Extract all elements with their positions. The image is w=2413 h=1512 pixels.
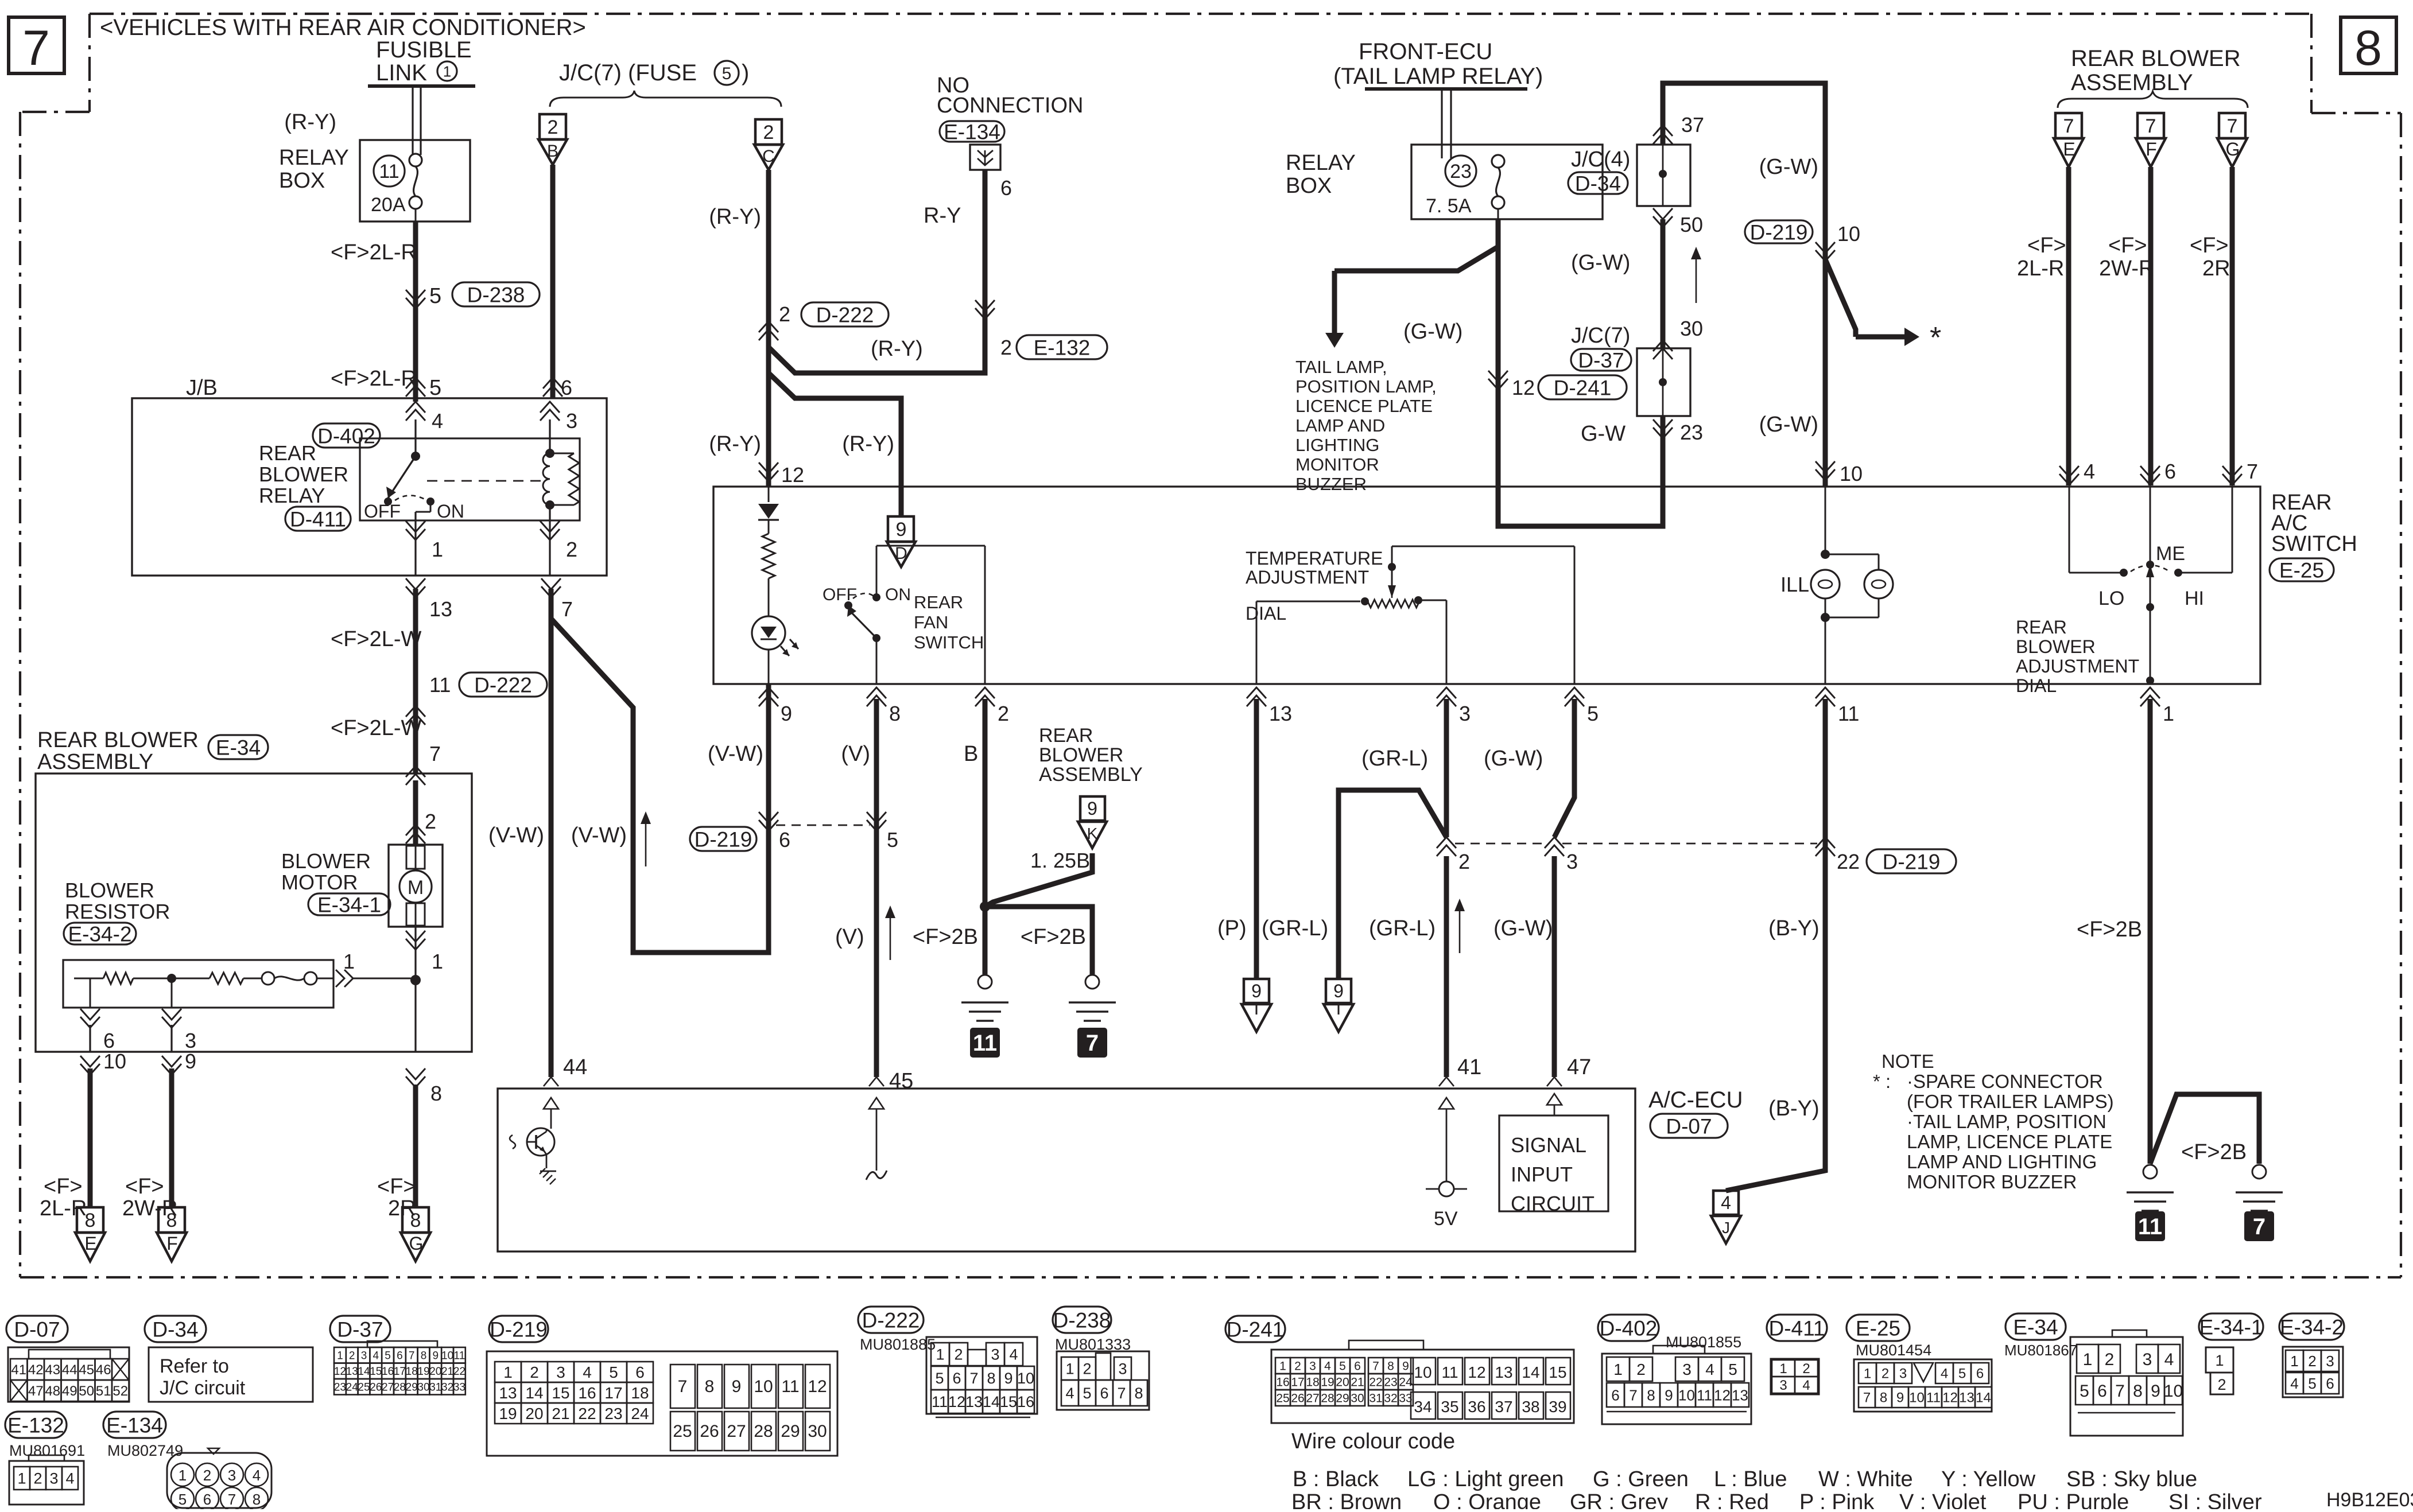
svg-text:SB : Sky blue: SB : Sky blue [2066,1467,2197,1491]
svg-text:10: 10 [2164,1382,2183,1401]
svg-text:L : Blue: L : Blue [1714,1467,1787,1491]
svg-text:E-34: E-34 [2013,1315,2058,1339]
svg-text:14: 14 [1522,1363,1539,1381]
svg-text:(G-W): (G-W) [1493,916,1553,940]
svg-text:<F>: <F> [377,1175,416,1199]
svg-text:50: 50 [79,1383,94,1399]
svg-text:7. 5A: 7. 5A [1426,195,1472,217]
svg-text:D-238: D-238 [1053,1308,1111,1332]
svg-text:9: 9 [433,1350,439,1362]
svg-text:K: K [1087,825,1098,842]
svg-text:2: 2 [1458,850,1470,873]
svg-text:1: 1 [2163,702,2174,725]
svg-text:ADJUSTMENT: ADJUSTMENT [1246,567,1369,588]
svg-text:13: 13 [346,1366,358,1378]
svg-text:10: 10 [1909,1390,1925,1406]
svg-text:1: 1 [1613,1361,1623,1378]
svg-text:7: 7 [561,597,573,621]
svg-text:LO: LO [2098,588,2124,609]
svg-text:43: 43 [45,1362,60,1378]
svg-text:47: 47 [28,1383,44,1399]
svg-text:15: 15 [1549,1363,1566,1381]
svg-text:FUSIBLE: FUSIBLE [376,37,472,63]
svg-text:7: 7 [2115,1382,2125,1401]
svg-text:23: 23 [1384,1376,1397,1389]
svg-text:4: 4 [1009,1346,1018,1363]
svg-text:2: 2 [1636,1361,1646,1378]
svg-text:22: 22 [1837,850,1860,873]
svg-text:(V): (V) [835,925,864,949]
svg-text:3: 3 [566,409,577,433]
svg-text:E: E [84,1233,96,1254]
svg-text:6: 6 [2097,1382,2107,1401]
svg-text:11: 11 [1926,1390,1941,1406]
svg-text:1: 1 [1279,1360,1286,1373]
svg-text:R-Y: R-Y [924,204,961,228]
svg-text:15: 15 [370,1366,382,1378]
svg-text:13: 13 [965,1393,983,1410]
svg-text:1: 1 [1864,1366,1871,1382]
svg-text:E-34-2: E-34-2 [68,922,131,946]
svg-text:9: 9 [1087,798,1097,819]
svg-text:D-238: D-238 [467,283,525,306]
svg-text:5: 5 [887,828,898,852]
svg-text:2: 2 [1802,1361,1810,1377]
svg-text:J: J [1722,1219,1730,1237]
svg-text:41: 41 [1457,1055,1481,1079]
svg-text:E-34-1: E-34-1 [317,893,381,916]
svg-text:2: 2 [349,1350,355,1362]
svg-text:2: 2 [425,810,436,833]
svg-text:12: 12 [1942,1390,1958,1406]
svg-text:OFF: OFF [364,501,401,522]
svg-text:24: 24 [631,1405,649,1422]
svg-text:(R-Y): (R-Y) [709,205,761,229]
svg-text:20: 20 [525,1405,543,1422]
svg-text:DIAL: DIAL [2016,675,2057,696]
svg-text:BLOWER: BLOWER [259,462,348,486]
svg-text:2: 2 [998,702,1009,725]
svg-text:MONITOR: MONITOR [1295,454,1379,475]
svg-text:3: 3 [1779,1378,1787,1393]
svg-text:D-219: D-219 [1883,850,1941,873]
svg-text:2: 2 [1881,1366,1889,1382]
svg-text:<F>: <F> [44,1175,83,1199]
svg-text:<F>2L-W: <F>2L-W [331,716,422,740]
svg-text:9: 9 [1665,1386,1673,1404]
svg-text:4: 4 [253,1467,261,1484]
svg-text:(GR-L): (GR-L) [1361,747,1428,771]
svg-text:30: 30 [808,1422,827,1441]
svg-text:1: 1 [2083,1350,2093,1369]
svg-text:8: 8 [1134,1385,1143,1402]
svg-text:25: 25 [1276,1392,1289,1405]
svg-text:A/C-ECU: A/C-ECU [1648,1087,1743,1113]
svg-text:39: 39 [1549,1398,1566,1416]
svg-text:D-34: D-34 [152,1317,198,1341]
svg-text:12: 12 [1512,376,1535,399]
svg-text:9: 9 [2151,1382,2160,1401]
svg-text:MONITOR BUZZER: MONITOR BUZZER [1907,1171,2077,1192]
svg-text:2: 2 [2105,1350,2115,1369]
svg-text:J/C(4): J/C(4) [1571,147,1630,172]
svg-text:LIGHTING: LIGHTING [1295,435,1379,455]
svg-text:J/C(7): J/C(7) [1571,324,1630,348]
svg-text:7: 7 [1086,1031,1099,1056]
svg-text:SIGNAL: SIGNAL [1511,1133,1586,1157]
svg-text:E-25: E-25 [1856,1316,1900,1340]
svg-text:13: 13 [499,1384,517,1402]
svg-text:4: 4 [1324,1360,1331,1373]
svg-text:D-07: D-07 [1666,1114,1712,1138]
svg-text:E-134: E-134 [106,1413,163,1437]
svg-text:31: 31 [429,1382,441,1394]
svg-text:7: 7 [2247,460,2258,483]
svg-text:7: 7 [429,742,441,765]
svg-text:4: 4 [1065,1385,1074,1402]
svg-text:41: 41 [11,1362,26,1378]
svg-text:16: 16 [1276,1376,1289,1389]
svg-text:R : Red: R : Red [1695,1490,1769,1509]
svg-text:5: 5 [609,1363,618,1381]
svg-text:26: 26 [1291,1392,1304,1405]
svg-text:19: 19 [1321,1376,1334,1389]
svg-text:REAR BLOWER: REAR BLOWER [2071,46,2241,71]
svg-text:22: 22 [1369,1376,1382,1389]
svg-text:E-34-1: E-34-1 [2199,1315,2263,1339]
svg-text:11: 11 [1838,702,1859,725]
svg-text:28: 28 [394,1382,406,1394]
svg-text:RELAY: RELAY [259,484,325,507]
svg-text:3: 3 [361,1350,367,1362]
svg-text:7: 7 [1863,1390,1871,1406]
svg-text:G-W: G-W [1581,422,1626,446]
svg-text:5: 5 [179,1491,187,1508]
svg-text:MU801867: MU801867 [2004,1342,2077,1359]
svg-text:1: 1 [432,950,443,973]
svg-text:8: 8 [253,1491,261,1508]
svg-text:CIRCUIT: CIRCUIT [1511,1192,1595,1215]
svg-text:12: 12 [781,463,804,487]
svg-text:17: 17 [1291,1376,1304,1389]
svg-text:21: 21 [441,1366,453,1378]
svg-text:14: 14 [1976,1390,1991,1406]
svg-text:(V-W): (V-W) [488,823,544,848]
svg-text:<F>2B: <F>2B [2077,918,2142,942]
svg-text:13: 13 [429,597,452,621]
svg-text:3: 3 [991,1346,999,1363]
svg-text:4: 4 [2084,460,2095,483]
svg-text:6: 6 [203,1491,211,1508]
svg-text:MU801454: MU801454 [1856,1342,1931,1359]
svg-text:26: 26 [370,1382,382,1394]
svg-text:V : Violet: V : Violet [1899,1490,1987,1509]
svg-text:8: 8 [2354,21,2382,76]
svg-text:5: 5 [1339,1360,1346,1373]
svg-text:9: 9 [1333,981,1344,1001]
svg-text:2: 2 [33,1470,42,1487]
svg-text:11: 11 [454,1350,465,1362]
svg-text:6: 6 [779,828,790,852]
svg-text:11: 11 [379,161,399,182]
svg-text:2: 2 [203,1467,211,1484]
svg-text:49: 49 [62,1383,77,1399]
svg-text:4: 4 [1802,1378,1810,1393]
svg-text:D-37: D-37 [1578,348,1624,372]
svg-text:BLOWER: BLOWER [281,849,371,873]
svg-text:46: 46 [96,1362,111,1378]
svg-text:D-37: D-37 [337,1317,383,1341]
svg-text:(TAIL LAMP RELAY): (TAIL LAMP RELAY) [1333,64,1543,89]
svg-text:J/C circuit: J/C circuit [160,1377,246,1399]
svg-text:CONNECTION: CONNECTION [937,94,1083,118]
svg-text:·SPARE CONNECTOR: ·SPARE CONNECTOR [1907,1071,2103,1092]
svg-text:7: 7 [409,1350,415,1362]
svg-text:REAR: REAR [259,441,316,465]
svg-text:REAR: REAR [914,592,963,612]
svg-text:11: 11 [429,673,451,697]
svg-text:29: 29 [406,1382,418,1394]
svg-text:4: 4 [373,1350,379,1362]
svg-text:M: M [408,877,424,899]
svg-text:<F>: <F> [125,1175,164,1199]
svg-text:5: 5 [429,284,441,308]
svg-text:P : Pink: P : Pink [1799,1490,1875,1509]
svg-text:G: G [2226,139,2240,160]
svg-text:7: 7 [228,1491,236,1508]
svg-text:GR : Grey: GR : Grey [1570,1490,1668,1509]
svg-text:42: 42 [28,1362,44,1378]
svg-text:13: 13 [1495,1363,1512,1381]
svg-text:3: 3 [556,1363,565,1381]
svg-text:9: 9 [1896,1390,1904,1406]
svg-text:LG : Light green: LG : Light green [1407,1467,1564,1491]
svg-text:B : Black: B : Black [1293,1467,1379,1491]
svg-text:O : Orange: O : Orange [1433,1490,1541,1509]
svg-text:2: 2 [530,1363,539,1381]
svg-text:BLOWER: BLOWER [65,879,154,902]
svg-text:TEMPERATURE: TEMPERATURE [1246,548,1383,569]
svg-text:9: 9 [1402,1360,1409,1373]
svg-text:22: 22 [578,1405,596,1422]
svg-text:25: 25 [358,1382,370,1394]
svg-text:J/B: J/B [186,376,218,400]
svg-text:52: 52 [112,1383,128,1399]
svg-text:B: B [547,142,558,161]
svg-text:E-132: E-132 [7,1413,64,1437]
svg-text:7: 7 [1629,1386,1637,1404]
svg-text:ADJUSTMENT: ADJUSTMENT [2016,656,2139,677]
svg-text:31: 31 [1369,1392,1382,1405]
svg-text:LAMP AND: LAMP AND [1295,415,1385,436]
svg-text:45: 45 [79,1362,94,1378]
svg-text:13: 13 [1269,702,1292,725]
svg-text:D-241: D-241 [1227,1317,1285,1341]
svg-text:3: 3 [1309,1360,1316,1373]
svg-text:(G-W): (G-W) [1759,413,1818,437]
svg-text:8: 8 [1880,1390,1887,1406]
svg-text:RESISTOR: RESISTOR [65,900,170,923]
svg-text:(GR-L): (GR-L) [1262,916,1328,940]
svg-text:1: 1 [17,1470,26,1487]
svg-text:10: 10 [103,1050,126,1073]
svg-text:27: 27 [727,1422,746,1441]
svg-text:SWITCH: SWITCH [2271,532,2357,556]
svg-text:Refer to: Refer to [160,1355,229,1377]
svg-text:C: C [762,147,775,166]
svg-text:FRONT-ECU: FRONT-ECU [1359,39,1492,64]
svg-text:(R-Y): (R-Y) [871,337,923,361]
svg-text:BUZZER: BUZZER [1295,474,1367,494]
svg-text:<F>2L-R: <F>2L-R [331,240,417,265]
svg-text:9: 9 [781,702,792,725]
svg-text:F: F [2146,139,2157,160]
svg-text:ASSEMBLY: ASSEMBLY [1039,764,1143,786]
svg-text:D: D [895,544,907,563]
svg-text:D-07: D-07 [14,1317,60,1341]
svg-text:BLOWER: BLOWER [2016,636,2096,657]
svg-text:29: 29 [1336,1392,1349,1405]
svg-text:4: 4 [65,1470,74,1487]
svg-text:36: 36 [1468,1398,1485,1416]
svg-text:6: 6 [1100,1385,1108,1402]
svg-text:1: 1 [443,63,451,80]
svg-text:5: 5 [2080,1382,2089,1401]
svg-text:44: 44 [563,1055,587,1079]
svg-text:19: 19 [499,1405,517,1422]
svg-text:11: 11 [781,1377,799,1396]
svg-text:2: 2 [954,1346,963,1363]
svg-text:7: 7 [22,21,50,76]
svg-text:B: B [964,742,978,766]
svg-text:LINK: LINK [376,60,427,85]
svg-text:9: 9 [1004,1370,1012,1387]
svg-text:2L-R: 2L-R [2017,256,2064,281]
svg-text:LICENCE PLATE: LICENCE PLATE [1295,396,1433,416]
svg-text:D-222: D-222 [816,303,874,327]
svg-text:23: 23 [1680,421,1703,444]
svg-text:6: 6 [2164,460,2176,483]
svg-text:11: 11 [2138,1214,2162,1239]
svg-text:3: 3 [1118,1361,1127,1378]
svg-text:15: 15 [1000,1393,1017,1410]
svg-text:3: 3 [1899,1366,1907,1382]
svg-text:7: 7 [2227,115,2238,137]
svg-text:·TAIL LAMP, POSITION: ·TAIL LAMP, POSITION [1907,1111,2106,1132]
svg-text:<F>: <F> [2108,234,2147,258]
svg-text:32: 32 [1384,1392,1397,1405]
svg-text:16: 16 [1017,1393,1034,1410]
svg-text:24: 24 [346,1382,359,1394]
svg-text:3: 3 [1682,1361,1692,1378]
svg-text:8: 8 [421,1350,427,1362]
svg-text:11: 11 [932,1393,948,1410]
svg-text:12: 12 [1714,1386,1731,1404]
svg-text:J/C(7) (FUSE: J/C(7) (FUSE [559,60,697,85]
svg-text:Y : Yellow: Y : Yellow [1941,1467,2036,1491]
svg-text:(V): (V) [841,742,870,766]
svg-text:6: 6 [952,1370,961,1387]
svg-text:6: 6 [1000,176,1012,200]
svg-text:5V: 5V [1434,1208,1458,1230]
svg-text:4: 4 [1941,1366,1948,1382]
svg-text:51: 51 [96,1383,111,1399]
svg-text:21: 21 [1351,1376,1364,1389]
svg-text:23: 23 [604,1405,622,1422]
svg-text:2: 2 [2308,1352,2316,1370]
svg-text:35: 35 [1441,1398,1458,1416]
svg-text:38: 38 [1522,1398,1539,1416]
svg-text:28: 28 [754,1422,773,1441]
svg-text:13: 13 [1959,1390,1974,1406]
svg-text:ME: ME [2156,543,2185,565]
svg-text:25: 25 [673,1422,692,1441]
svg-text:30: 30 [1351,1392,1364,1405]
svg-text:MU801855: MU801855 [1666,1334,1741,1351]
svg-text:8: 8 [410,1210,421,1231]
svg-text:ASSEMBLY: ASSEMBLY [2071,70,2193,95]
svg-text:8: 8 [2133,1382,2143,1401]
svg-text:8: 8 [1387,1360,1394,1373]
svg-text:RELAY: RELAY [279,146,349,170]
svg-text:<F>: <F> [2190,234,2229,258]
svg-text:E-132: E-132 [1034,336,1091,359]
svg-text:1: 1 [179,1467,187,1484]
svg-text:3: 3 [185,1029,196,1052]
svg-text:*: * [1930,321,1941,355]
svg-text:20: 20 [1336,1376,1349,1389]
svg-text:23: 23 [1450,161,1472,182]
svg-text:1: 1 [337,1350,343,1362]
svg-text:3: 3 [1459,702,1471,725]
svg-text:INPUT: INPUT [1511,1163,1573,1186]
svg-text:<F>2L-W: <F>2L-W [331,627,422,651]
svg-text:2: 2 [566,538,577,561]
svg-text:MU801691: MU801691 [9,1442,85,1459]
svg-text:2: 2 [548,116,558,138]
svg-text:4: 4 [1705,1361,1714,1378]
svg-text:(R-Y): (R-Y) [284,110,336,134]
svg-text:2: 2 [1083,1361,1091,1378]
svg-text:): ) [742,60,749,85]
svg-text:(P): (P) [1217,916,1247,940]
svg-text:37: 37 [1495,1398,1512,1416]
svg-text:G : Green: G : Green [1593,1467,1689,1491]
svg-text:7: 7 [1372,1360,1379,1373]
svg-text:MU801885: MU801885 [860,1336,936,1353]
svg-text:REAR: REAR [1039,725,1093,747]
svg-text:1: 1 [2215,1352,2224,1369]
svg-text:6: 6 [1354,1360,1361,1373]
svg-text:1: 1 [343,950,355,973]
svg-text:BOX: BOX [1286,174,1332,198]
svg-text:F: F [166,1233,178,1254]
svg-text:28: 28 [1321,1392,1334,1405]
svg-text:(G-W): (G-W) [1403,320,1462,344]
svg-text:REAR BLOWER: REAR BLOWER [37,728,199,752]
svg-text:H9B12E03DC: H9B12E03DC [2326,1489,2413,1509]
svg-text:6: 6 [103,1029,115,1052]
svg-text:10: 10 [1414,1363,1431,1381]
svg-text:22: 22 [453,1366,465,1378]
svg-text:48: 48 [45,1383,60,1399]
svg-text:16: 16 [382,1366,394,1378]
svg-text:RELAY: RELAY [1286,151,1356,175]
svg-text:(FOR TRAILER LAMPS): (FOR TRAILER LAMPS) [1907,1091,2114,1112]
svg-text:17: 17 [394,1366,406,1378]
svg-text:7: 7 [2063,115,2074,137]
svg-text:4: 4 [432,409,443,433]
